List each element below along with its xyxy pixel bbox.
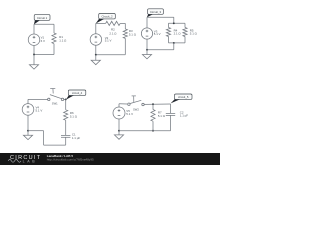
svg-text:2.1 Ω: 2.1 Ω [109, 31, 117, 35]
svg-text:1.1 Ω: 1.1 Ω [59, 39, 67, 43]
svg-text:circuit_4: circuit_4 [72, 91, 83, 95]
svg-text:LAB: LAB [23, 159, 38, 163]
svg-text:1.1 µF: 1.1 µF [180, 114, 188, 118]
svg-text:SW2: SW2 [133, 108, 139, 112]
svg-text:SW1: SW1 [52, 102, 58, 106]
svg-text:5.1 V: 5.1 V [36, 108, 43, 112]
svg-text:5.1 V: 5.1 V [105, 39, 112, 43]
svg-text:5.1 Ω: 5.1 Ω [70, 115, 78, 119]
svg-text:1.1 µF: 1.1 µF [72, 136, 80, 140]
svg-text:Circuit_3: Circuit_3 [150, 10, 161, 14]
svg-text:Circuit_2: Circuit_2 [101, 14, 112, 18]
svg-text:5.1 Ω: 5.1 Ω [190, 32, 198, 36]
svg-text:2.1 Ω: 2.1 Ω [174, 32, 182, 36]
svg-text:5.1 V: 5.1 V [154, 32, 161, 36]
svg-text:circuit_5: circuit_5 [178, 95, 189, 99]
svg-text:6 V: 6 V [41, 39, 45, 43]
svg-text:5.1 Ω: 5.1 Ω [129, 33, 137, 37]
svg-text:5.1 V: 5.1 V [126, 112, 133, 116]
svg-text:http://circuitlab.com/c/76f5va: http://circuitlab.com/c/76f5va48y95 [47, 158, 94, 162]
svg-text:Circuit 1: Circuit 1 [37, 16, 48, 20]
svg-text:5.1 Ω: 5.1 Ω [158, 114, 166, 118]
